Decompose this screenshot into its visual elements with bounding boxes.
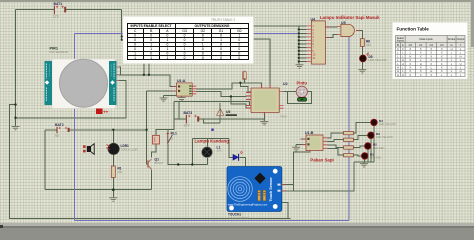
svg-text:0: 0 (166, 42, 168, 46)
window frame edges (0, 0, 474, 2)
svg-text:X: X (397, 47, 399, 51)
node U2 input dots (239, 82, 241, 84)
svg-text:X: X (430, 58, 432, 62)
ground U1:B (292, 147, 300, 150)
wire junction branch to lower U2 pin (231, 97, 251, 109)
LED D2 (365, 143, 385, 150)
wire motor loop (287, 92, 311, 104)
svg-text:X: X (420, 54, 422, 58)
svg-text:BAT2: BAT2 (55, 123, 64, 127)
svg-text:H: H (460, 62, 462, 66)
resistor R6 (360, 39, 371, 47)
svg-text:C3: C3 (440, 43, 444, 47)
svg-text:1: 1 (202, 42, 204, 46)
resistor R2 (344, 131, 354, 134)
wire U1:B bottom L to touch (282, 151, 310, 191)
svg-text:G0: G0 (237, 29, 242, 33)
svg-text:TRUTH TABLE 2: TRUTH TABLE 2 (211, 18, 235, 22)
ground U1:A (160, 98, 168, 101)
svg-text:X: X (430, 47, 432, 51)
svg-text:X: X (409, 73, 411, 77)
resistor R1 (111, 166, 122, 178)
wire U6 right tick (226, 115, 237, 117)
svg-text:1: 1 (166, 56, 168, 60)
svg-text:Pakan Sapi: Pakan Sapi (310, 157, 333, 162)
svg-text:TOUCH SENSOR: TOUCH SENSOR (228, 216, 249, 220)
svg-text:INPUTS ENABLE SELECT: INPUTS ENABLE SELECT (130, 24, 171, 28)
wire resistors to LEDs (353, 122, 370, 155)
LED blue D6 (233, 151, 243, 161)
svg-text:H: H (397, 73, 399, 77)
svg-text:0: 0 (184, 33, 186, 37)
svg-text:Data Inputs: Data Inputs (419, 37, 433, 41)
wire U2 left pin stubs (246, 92, 251, 108)
wire outer-left branch down to bottom (10, 105, 291, 219)
svg-text:5V: 5V (170, 137, 174, 141)
svg-text:12V: 12V (184, 124, 191, 128)
svg-text:X: X (409, 69, 411, 73)
svg-text:H: H (402, 73, 404, 77)
corner mark bottom-left (0, 225, 3, 228)
wire PIR pin2 horizontal bus (119, 75, 176, 87)
svg-text:X: X (441, 51, 443, 55)
wire U4 to AND gate A (325, 26, 337, 28)
wire U2 right to motor (284, 91, 297, 93)
svg-text:X: X (430, 51, 432, 55)
wire purple top run (75, 32, 299, 34)
svg-text:H: H (397, 69, 399, 73)
svg-text:BAT3: BAT3 (184, 111, 193, 115)
ground LED D5 (358, 70, 366, 73)
wire touch gnd pin to bottom rail (282, 203, 288, 219)
svg-text:X: X (441, 47, 443, 51)
svg-text:H: H (402, 62, 404, 66)
svg-text:9V: 9V (55, 134, 60, 138)
wire U1:A out3 bend down (196, 91, 251, 96)
svg-text:++: ++ (103, 110, 109, 115)
svg-text:1: 1 (150, 42, 152, 46)
svg-text:0: 0 (166, 51, 168, 55)
resistor R5 (344, 154, 354, 157)
svg-text:0: 0 (238, 47, 240, 51)
wire U1:B left stubs (296, 139, 306, 147)
wire U2 ground stub (263, 119, 265, 121)
svg-text:1: 1 (134, 51, 136, 55)
svg-text:0: 0 (220, 56, 222, 60)
wire mid bus to U2 lower pin (174, 102, 251, 119)
IC U2 (246, 82, 288, 119)
svg-text:G1: G1 (219, 29, 224, 33)
svg-text:10k: 10k (118, 170, 123, 174)
svg-text:G: G (450, 43, 452, 47)
svg-text:C1: C1 (419, 43, 423, 47)
svg-text:H: H (430, 69, 432, 73)
svg-text:Touch Sensor: Touch Sensor (269, 177, 273, 202)
touch sensor module TOUCH1 (227, 167, 286, 220)
LED D4 (371, 119, 397, 126)
svg-text:1: 1 (184, 47, 186, 51)
svg-text:X: X (441, 62, 443, 66)
wire lamp-bus riser (191, 138, 193, 164)
svg-text:0: 0 (150, 51, 152, 55)
svg-text:X: X (409, 47, 411, 51)
svg-text:U2: U2 (283, 82, 288, 86)
svg-text:0: 0 (134, 33, 136, 37)
svg-text:1: 1 (134, 56, 136, 60)
wire U1:B outputs to resistors (328, 133, 344, 155)
wire lamp stubs (206, 138, 208, 164)
svg-text:1: 1 (238, 33, 240, 37)
node BAT2 rail dots (112, 129, 114, 131)
wire U4 bus vertical (298, 26, 300, 65)
svg-text:C2: C2 (430, 43, 434, 47)
wire branch into U2 left pin1 (240, 83, 251, 92)
svg-text:Lampu Indikator Sapi Masuk: Lampu Indikator Sapi Masuk (320, 15, 380, 20)
ground LDR divider (109, 198, 117, 201)
svg-text:0: 0 (238, 51, 240, 55)
wire R6 to LED D5 (361, 46, 363, 69)
svg-text:B: B (397, 43, 399, 47)
transistor Q1 (148, 157, 163, 169)
wire BAT3 rail (174, 113, 264, 119)
IC U1:A (173, 79, 197, 98)
svg-text:0: 0 (220, 47, 222, 51)
node U4 bus dots (298, 28, 300, 30)
wire PIR pin1 stub (119, 67, 121, 75)
wire top-left loop horizontal (16, 9, 122, 11)
svg-text:H: H (460, 54, 462, 58)
battery BAT1 (53, 2, 65, 19)
svg-text:0: 0 (134, 42, 136, 46)
wire table right rails (254, 26, 299, 88)
svg-text:Y: Y (460, 43, 462, 47)
wire to blue LED (229, 138, 233, 157)
ground U4 bus (296, 65, 304, 68)
speaker LS1 (83, 144, 94, 155)
LED D5 (360, 53, 387, 63)
svg-text:0: 0 (238, 42, 240, 46)
svg-text:X: X (420, 51, 422, 55)
node PIR bus dots (143, 74, 145, 76)
svg-text:Lampu Kandang: Lampu Kandang (195, 139, 230, 144)
node lamp bus dots (177, 163, 179, 165)
ground U1:A bottom (178, 98, 186, 101)
resistor R4 (344, 146, 354, 149)
wire purple right vertical (348, 37, 350, 221)
svg-text:0: 0 (238, 56, 240, 60)
wire LDR column (112, 130, 114, 198)
node left rail dots (14, 103, 16, 105)
svg-text:www.TheEngineeringProjects.com: www.TheEngineeringProjects.com (228, 202, 267, 206)
svg-text:0: 0 (184, 51, 186, 55)
svg-text:LED-RED: LED-RED (373, 146, 385, 150)
wire purple left vertical (74, 33, 76, 220)
svg-text:LED-YELLOW: LED-YELLOW (376, 135, 393, 139)
svg-text:1: 1 (150, 47, 152, 51)
svg-text:12V: 12V (217, 149, 222, 153)
svg-text:0: 0 (150, 33, 152, 37)
wire lamp top rail (192, 137, 229, 139)
wire U1:A bottom pin to ground (181, 96, 183, 97)
wire BAT2 rail (45, 129, 147, 131)
svg-text:0: 0 (202, 51, 204, 55)
svg-text:X: X (441, 54, 443, 58)
svg-text:U1:A: U1:A (177, 79, 186, 83)
svg-text:OUTPUTS DEMUXING: OUTPUTS DEMUXING (195, 24, 230, 28)
wire relay contact bottom to lamp bus (168, 144, 208, 165)
svg-text:Output: Output (457, 37, 465, 41)
svg-text:X: X (430, 54, 432, 58)
svg-text:220: 220 (366, 43, 371, 47)
wire U4 to AND gate B (325, 35, 337, 38)
lamp L1 (202, 145, 222, 157)
battery BAT2 (55, 123, 69, 138)
svg-text:0: 0 (134, 47, 136, 51)
svg-text:12V: 12V (53, 15, 60, 19)
wire left vertical main (15, 10, 17, 127)
wire blue LED to touch board (239, 157, 245, 166)
battery BAT3 (184, 111, 199, 128)
svg-text:H: H (420, 62, 422, 66)
node blue junction (211, 129, 213, 131)
svg-text:U1:B: U1:B (305, 131, 314, 135)
svg-text:X: X (402, 47, 404, 51)
wire relay contact top (167, 129, 169, 132)
wire LED ground bus (354, 162, 374, 164)
svg-text:0: 0 (202, 38, 204, 42)
wire AND out to R6 (356, 31, 362, 39)
svg-text:0: 0 (184, 56, 186, 60)
svg-text:G2: G2 (201, 29, 206, 33)
resistor R7 (243, 70, 246, 82)
svg-text:X: X (409, 66, 411, 70)
svg-text:Strobe: Strobe (448, 37, 456, 41)
AND gate U5 (337, 21, 360, 37)
wire U1:A pin2 feed down to Q1 base (147, 91, 177, 164)
truth table TRUTH TABLE 2 (123, 17, 254, 64)
ground LED column (360, 164, 368, 167)
svg-text:0: 0 (220, 33, 222, 37)
svg-text:BAT1: BAT1 (54, 2, 63, 6)
ground left rail (12, 127, 20, 130)
wire purple bottom run (75, 220, 349, 222)
svg-text:0: 0 (202, 56, 204, 60)
svg-text:X: X (409, 58, 411, 62)
svg-text:1: 1 (220, 38, 222, 42)
svg-text:1: 1 (166, 38, 168, 42)
svg-text:0: 0 (220, 51, 222, 55)
svg-text:7400: 7400 (280, 115, 287, 119)
svg-text:X: X (441, 69, 443, 73)
PIR sensor module PIR1 (45, 47, 120, 115)
LED D3 (368, 132, 394, 139)
svg-text:C0: C0 (409, 43, 413, 47)
LDR LDR1 (107, 143, 138, 154)
wire BAT2 left riser (44, 130, 46, 190)
svg-text:0: 0 (150, 38, 152, 42)
svg-text:U6: U6 (226, 110, 230, 114)
svg-text:LED-YELLOW: LED-YELLOW (369, 58, 387, 62)
wire Q1 emitter down (150, 170, 152, 190)
svg-text:Inputs: Inputs (397, 39, 405, 43)
svg-text:H: H (460, 69, 462, 73)
wire BAT3 left drop to relay coil (156, 102, 174, 136)
function table (393, 23, 468, 80)
svg-text:X: X (441, 66, 443, 70)
LED D1 (361, 153, 381, 160)
wire cap link to U6 (204, 119, 221, 123)
svg-text:0: 0 (184, 38, 186, 42)
wire U6 vertical (219, 103, 221, 123)
IC U4 (306, 17, 329, 64)
triangle device U6 (217, 109, 237, 116)
svg-text:X: X (420, 66, 422, 70)
wire U1:A out1 to U2 top pin (196, 83, 261, 89)
resistor R3 (344, 138, 354, 141)
wire U1:A gnd stub (164, 96, 177, 98)
svg-text:H: H (409, 54, 411, 58)
svg-text:H: H (397, 66, 399, 70)
wire PIR pin3 right-down-left to node (16, 81, 127, 118)
svg-text:A: A (402, 43, 404, 47)
svg-text:0: 0 (202, 33, 204, 37)
wire table pins down to PIR bus (144, 60, 149, 75)
svg-text:H: H (402, 58, 404, 62)
svg-text:TORCH_LDR: TORCH_LDR (121, 148, 138, 152)
svg-text:G3: G3 (182, 29, 187, 33)
svg-text:X: X (430, 62, 432, 66)
svg-text:X: X (420, 69, 422, 73)
node LDR divider dot (112, 188, 115, 191)
svg-text:0: 0 (238, 38, 240, 42)
wire battery1 right corner down to table bus (121, 10, 123, 41)
svg-text:0: 0 (202, 47, 204, 51)
svg-text:PIR SENSOR: PIR SENSOR (50, 50, 69, 54)
svg-text:Pintu: Pintu (297, 81, 308, 86)
svg-text:0: 0 (184, 42, 186, 46)
svg-text:X: X (409, 62, 411, 66)
motor Pintu (296, 81, 307, 102)
svg-text:BC547: BC547 (155, 161, 164, 165)
svg-text:0: 0 (134, 38, 136, 42)
svg-text:X: X (430, 73, 432, 77)
svg-text:X: X (420, 73, 422, 77)
svg-text:0: 0 (166, 33, 168, 37)
svg-text:H: H (451, 47, 453, 51)
svg-text:1: 1 (150, 56, 152, 60)
wire bottom bus BAT2 loop (45, 189, 151, 191)
wire touch pin2 to LED ground bus (282, 162, 354, 191)
wire LED cathodes down to gnd bus (365, 126, 374, 162)
svg-text:X: X (420, 47, 422, 51)
svg-text:0: 0 (220, 42, 222, 46)
node battery bus dots left of table (121, 35, 123, 37)
svg-text:X: X (441, 58, 443, 62)
svg-text:LED-RED: LED-RED (370, 156, 382, 160)
svg-text:1: 1 (166, 47, 168, 51)
wire relay coil bottom to Q1 collector (151, 144, 156, 157)
wire U4 pin stubs (299, 26, 307, 62)
svg-text:Function Table: Function Table (397, 27, 430, 32)
svg-text:RL1: RL1 (171, 132, 178, 136)
IC U1:B (302, 131, 328, 152)
relay RL1 (153, 132, 178, 145)
ground BAT3 rail (260, 122, 268, 125)
svg-text:LED-YELLOW: LED-YELLOW (379, 122, 396, 126)
